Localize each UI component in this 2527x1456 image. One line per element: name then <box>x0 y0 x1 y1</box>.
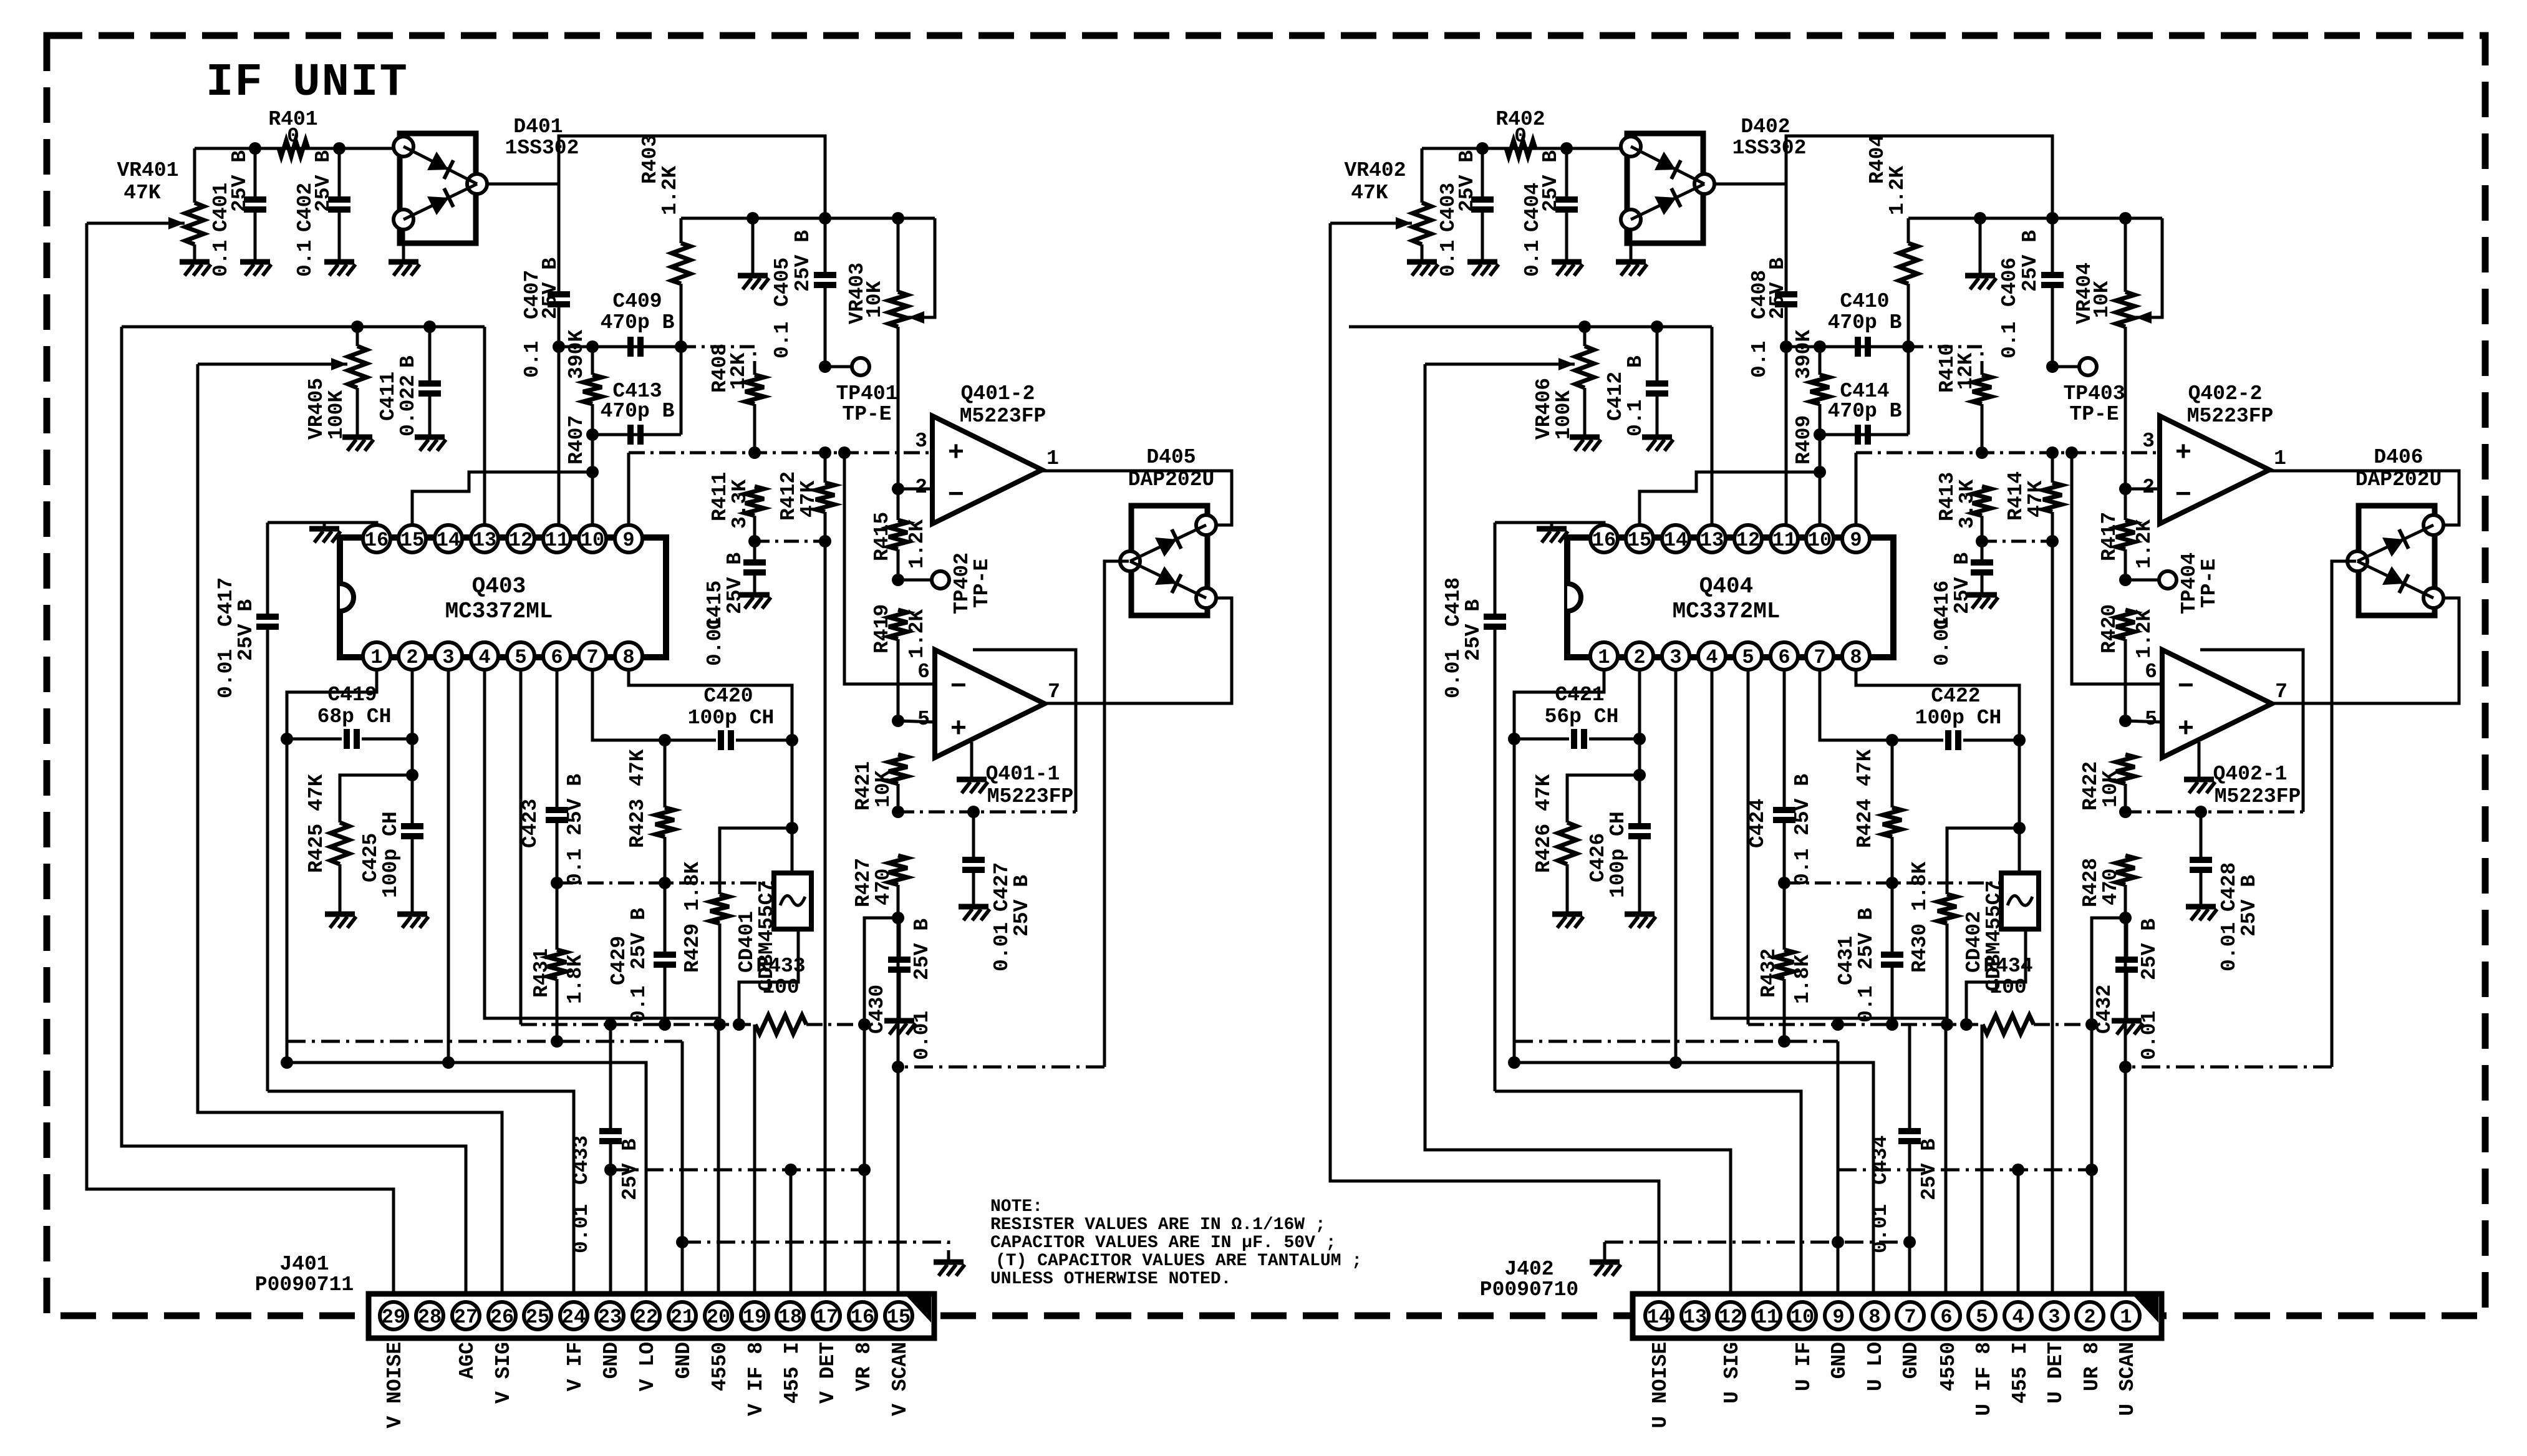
svg-text:13: 13 <box>473 529 496 552</box>
svg-text:M5223FP: M5223FP <box>987 785 1074 808</box>
ground <box>2112 1018 2142 1024</box>
svg-text:C420: C420 <box>703 685 753 708</box>
svg-text:D406: D406 <box>2374 446 2423 469</box>
svg-text:25V B: 25V B <box>1010 875 1033 937</box>
svg-text:3: 3 <box>1669 646 1681 669</box>
resistor R433 100 <box>755 1015 806 1034</box>
ground <box>1550 523 1553 528</box>
svg-text:4: 4 <box>478 646 490 669</box>
svg-text:16: 16 <box>365 529 389 552</box>
wire GND drop <box>1837 1041 1840 1296</box>
wire 455 I row <box>611 1169 864 1172</box>
wire pin 2 column <box>411 669 414 826</box>
wire 455 rail <box>521 1023 755 1026</box>
pin 17 of J401 <box>813 1302 840 1329</box>
ground <box>1570 435 1600 440</box>
junction node <box>1780 340 1792 353</box>
capacitor C413 470p B <box>627 425 634 445</box>
svg-text:8: 8 <box>622 646 634 669</box>
svg-text:47K: 47K <box>2024 480 2047 518</box>
junction node <box>586 428 599 441</box>
svg-text:11: 11 <box>1755 1306 1779 1329</box>
junction node <box>604 1164 617 1176</box>
junction node <box>713 1018 726 1031</box>
svg-text:4550: 4550 <box>708 1342 732 1391</box>
pin 4 of Q404 <box>1698 642 1726 670</box>
ground <box>1967 592 1997 598</box>
svg-text:25V B: 25V B <box>1855 908 1878 970</box>
IC Q403 MC3372ML <box>340 538 666 657</box>
junction node <box>553 340 565 353</box>
svg-text:Q401-2: Q401-2 <box>961 382 1035 405</box>
pin 1 of J402 <box>2112 1302 2140 1329</box>
resistor R404 1.2K <box>1907 218 1910 243</box>
svg-text:11: 11 <box>1772 529 1796 552</box>
resistor R423 47K <box>664 740 667 808</box>
ground <box>1603 1242 1607 1261</box>
svg-text:25V B: 25V B <box>791 230 814 292</box>
svg-text:100K: 100K <box>325 390 348 440</box>
junction node <box>892 574 904 586</box>
junction node <box>1886 877 1898 889</box>
capacitor C408 0.1 25V B <box>1785 184 1788 294</box>
wire pin 11 drop <box>558 347 561 526</box>
svg-text:M5223FP: M5223FP <box>2215 785 2301 808</box>
resistor R422 10K <box>2116 755 2135 784</box>
wire 470p rail lower <box>592 433 681 436</box>
capacitor C415 0.01 25V B <box>753 541 756 562</box>
wire 455 I drop <box>1981 1025 1984 1296</box>
svg-text:5: 5 <box>1742 646 1754 669</box>
svg-text:10K: 10K <box>2090 281 2114 318</box>
svg-text:U SIG: U SIG <box>1721 1342 1744 1404</box>
svg-text:68p CH: 68p CH <box>317 705 392 728</box>
wire pin 7 drop <box>1820 669 1892 740</box>
svg-text:470p B: 470p B <box>601 400 675 423</box>
resistor R419 1.2K <box>889 610 907 639</box>
wire V LO row <box>1514 1063 1873 1296</box>
wire pin4 to 4550 row <box>1712 669 1946 1296</box>
capacitor C434 0.01 25V B <box>1908 1025 1911 1131</box>
junction node <box>551 1035 563 1048</box>
junction node <box>2085 1164 2098 1176</box>
junction node <box>1886 1018 1898 1031</box>
capacitor C407 0.1 25V B <box>558 184 561 294</box>
svg-text:TP-E: TP-E <box>842 403 891 426</box>
junction node <box>819 446 831 459</box>
pin 9 of Q404 <box>1842 525 1870 552</box>
junction node <box>1778 877 1790 889</box>
svg-text:R424 47K: R424 47K <box>1853 749 1877 848</box>
svg-text:VR402: VR402 <box>1344 159 1406 182</box>
junction node <box>281 733 293 745</box>
svg-text:Q403: Q403 <box>472 574 526 599</box>
wire R427 bottom <box>864 918 898 1025</box>
resistor R409 390K <box>1819 347 1822 375</box>
IC Q404 MC3372ML <box>1567 538 1893 657</box>
svg-text:1.8K: 1.8K <box>564 955 587 1004</box>
junction node <box>1832 1236 1844 1248</box>
ground <box>934 1260 964 1265</box>
ground <box>1616 259 1646 265</box>
resistor R403 1.2K <box>680 218 683 243</box>
junction node <box>2195 806 2207 818</box>
junction node <box>604 1018 617 1031</box>
wire R431 GND row <box>287 1040 682 1043</box>
wire pin 15 staircase <box>412 472 592 526</box>
svg-text:3: 3 <box>2048 1306 2060 1329</box>
junction node <box>892 1061 904 1073</box>
ground drop <box>751 218 755 274</box>
svg-text:8: 8 <box>1868 1306 1880 1329</box>
pin 16 of J401 <box>849 1302 876 1329</box>
wire D401 output <box>488 136 825 218</box>
svg-text:UNLESS OTHERWISE NOTED.: UNLESS OTHERWISE NOTED. <box>990 1270 1231 1289</box>
svg-text:25V B: 25V B <box>1456 150 1479 212</box>
junction node <box>2119 806 2132 818</box>
wire op-amp input 2 <box>898 488 932 491</box>
pin 4 of J402 <box>2004 1302 2032 1329</box>
resistor R429 1.8K <box>710 894 729 923</box>
junction node <box>892 806 904 818</box>
pin 6 of J402 <box>1933 1302 1960 1329</box>
svg-text:+: + <box>2178 714 2194 745</box>
svg-text:28: 28 <box>418 1306 442 1329</box>
wire top rail <box>681 217 935 220</box>
ground <box>323 523 326 528</box>
junction node <box>659 877 671 889</box>
svg-text:455 I: 455 I <box>2009 1342 2032 1404</box>
svg-text:0.1: 0.1 <box>521 341 544 378</box>
ground <box>415 435 445 440</box>
svg-text:D402: D402 <box>1741 115 1790 138</box>
wire R434 right <box>2034 1023 2092 1026</box>
svg-text:B: B <box>1624 355 1647 368</box>
pin 8 of Q404 <box>1842 642 1870 670</box>
svg-text:12: 12 <box>1736 529 1760 552</box>
svg-text:VR401: VR401 <box>117 159 178 182</box>
svg-text:25V B: 25V B <box>627 908 650 970</box>
svg-text:+: + <box>950 714 967 745</box>
svg-text:0: 0 <box>287 125 299 148</box>
svg-text:10: 10 <box>1808 529 1832 552</box>
wire pin 13 drop <box>1711 327 1714 526</box>
junction node <box>819 535 831 547</box>
svg-text:15: 15 <box>1628 529 1651 552</box>
pin 14 of J402 <box>1645 1302 1673 1329</box>
svg-text:2: 2 <box>406 646 418 669</box>
svg-text:V LO: V LO <box>636 1342 659 1391</box>
svg-text:8: 8 <box>1850 646 1862 669</box>
capacitor C403 0.1 25V B <box>1481 148 1484 200</box>
svg-text:25V B: 25V B <box>1791 774 1814 836</box>
svg-text:7: 7 <box>2275 680 2288 703</box>
pin 10 of Q403 <box>579 525 606 552</box>
svg-text:5: 5 <box>2145 708 2157 731</box>
svg-text:DAP202U: DAP202U <box>1128 468 1215 491</box>
wire VR405 wiper <box>198 363 331 366</box>
capacitor C430 0.01 25V B <box>864 917 899 920</box>
wire op-amp output 7 <box>2272 598 2459 703</box>
wire C420 to CD401 <box>791 740 794 873</box>
pin 9 of J402 <box>1825 1302 1852 1329</box>
pin 2 of J402 <box>2076 1302 2104 1329</box>
svg-text:4550: 4550 <box>1937 1342 1960 1391</box>
junction node <box>2012 1164 2024 1176</box>
wire D405 mid terminal <box>1104 561 1129 1067</box>
resistor R420 1.2K <box>2116 610 2135 639</box>
svg-text:25V B: 25V B <box>2019 230 2042 292</box>
svg-text:C432: C432 <box>2093 985 2116 1034</box>
pin 15 of Q403 <box>399 525 426 552</box>
svg-text:7: 7 <box>1814 646 1825 669</box>
svg-text:GND: GND <box>672 1342 695 1379</box>
svg-text:U IF: U IF <box>1792 1342 1815 1391</box>
wire D402 lower pin to ground <box>1630 229 1633 261</box>
wire op-amp output 7 <box>1045 598 1232 703</box>
resistor R414 47K <box>2043 483 2062 512</box>
svg-text:D405: D405 <box>1146 446 1196 469</box>
pin 3 of Q404 <box>1662 642 1689 670</box>
junction node <box>351 321 364 333</box>
wire 470p rail upper <box>559 345 681 349</box>
wire op-amp output 1 <box>2269 471 2459 525</box>
ground <box>1625 912 1655 917</box>
svg-text:25V B: 25V B <box>234 599 258 661</box>
junction node <box>748 535 761 547</box>
svg-text:470p B: 470p B <box>1828 311 1902 334</box>
pin 5 of J402 <box>1968 1302 1996 1329</box>
feedback wire <box>2200 650 2303 812</box>
junction node <box>1508 1056 1520 1069</box>
wire pin 16 to ground <box>268 523 377 526</box>
svg-text:TP-E: TP-E <box>2198 559 2221 608</box>
pin 2 of Q403 <box>399 642 426 670</box>
junction node <box>892 715 904 727</box>
svg-text:R425 47K: R425 47K <box>305 774 328 873</box>
ground <box>342 435 372 440</box>
pin 6 of Q404 <box>1771 642 1798 670</box>
potentiometer VR402 47K <box>1421 148 1424 203</box>
svg-text:−: − <box>2178 672 2194 703</box>
svg-text:0.1: 0.1 <box>1624 400 1647 436</box>
wire SCAN row <box>898 1066 1104 1069</box>
wire op-amp input 3 row <box>1856 451 2160 455</box>
wire op-amp output 1 <box>1042 471 1232 525</box>
svg-text:24: 24 <box>562 1306 586 1329</box>
junction node <box>858 1164 871 1176</box>
junction node <box>1560 142 1573 155</box>
svg-text:V SIG: V SIG <box>492 1342 515 1404</box>
junction node <box>406 733 418 745</box>
svg-text:1: 1 <box>2120 1306 2132 1329</box>
junction node <box>1633 733 1646 745</box>
junction node <box>1886 734 1898 746</box>
svg-text:12: 12 <box>1719 1306 1742 1329</box>
pin 7 of Q404 <box>1806 642 1834 670</box>
pin 13 of Q404 <box>1698 525 1726 552</box>
svg-text:11: 11 <box>545 529 569 552</box>
ceramic filter CD401 CDBM455C7 <box>774 873 811 929</box>
svg-text:1: 1 <box>370 646 382 669</box>
wire pin 1 jog <box>1514 669 1604 739</box>
pin 19 of J401 <box>741 1302 768 1329</box>
junction node <box>2119 574 2132 586</box>
ground <box>1642 435 1672 440</box>
pin 1 of Q404 <box>1590 642 1618 670</box>
svg-text:100p CH: 100p CH <box>688 706 775 730</box>
capacitor C418 0.01 25V B <box>1494 523 1497 617</box>
svg-text:19: 19 <box>743 1306 766 1329</box>
svg-text:0: 0 <box>1514 125 1527 148</box>
capacitor C433 0.01 25V B <box>609 1025 612 1131</box>
svg-text:22: 22 <box>634 1306 658 1329</box>
wire 455 I row <box>1838 1169 2092 1172</box>
test point TP402 TP-E <box>898 579 932 582</box>
svg-text:14: 14 <box>1664 529 1688 552</box>
wire V LO row <box>287 1063 646 1296</box>
svg-text:C430: C430 <box>866 985 889 1034</box>
svg-text:0.1: 0.1 <box>1998 322 2021 359</box>
junction node <box>748 446 761 459</box>
wire VR 8 drop <box>2090 1025 2094 1296</box>
resistor R431 1.8K <box>556 883 559 950</box>
resistor R417 1.2K <box>2124 349 2127 520</box>
junction node <box>2046 446 2059 459</box>
svg-text:V IF 8: V IF 8 <box>745 1342 768 1416</box>
svg-text:16: 16 <box>851 1306 874 1329</box>
pin 3 of J402 <box>2041 1302 2068 1329</box>
resistor R427 470 <box>889 856 907 885</box>
junction node <box>659 1018 671 1031</box>
capacitor C426 100p CH <box>1628 823 1651 829</box>
potentiometer VR405 100K <box>356 327 359 346</box>
wire pin 9 drop <box>627 453 631 526</box>
ground <box>1552 259 1582 265</box>
wire V LO column <box>1513 739 1516 1063</box>
pin 26 of J401 <box>488 1302 516 1329</box>
wire op-amp input 5 <box>2125 721 2162 722</box>
junction node <box>1941 1018 1953 1031</box>
svg-text:Q402-2: Q402-2 <box>2188 382 2263 405</box>
capacitor C406 0.1 25V B <box>2051 218 2054 275</box>
wire pin 7 drop <box>592 669 665 740</box>
resistor R411 3.3K <box>745 486 764 516</box>
pin 2 of Q404 <box>1626 642 1653 670</box>
svg-text:P0090711: P0090711 <box>255 1273 354 1296</box>
svg-text:(T) CAPACITOR VALUES ARE TANTA: (T) CAPACITOR VALUES ARE TANTALUM ; <box>995 1251 1362 1271</box>
wire op-amp input 2 <box>2125 488 2160 491</box>
svg-text:25V B: 25V B <box>228 150 251 212</box>
pin 15 of J401 <box>885 1302 912 1329</box>
capacitor C402 0.1 25V B <box>338 148 341 200</box>
wire pin 8 jog <box>1856 669 2019 740</box>
svg-text:1: 1 <box>1598 646 1610 669</box>
junction node <box>786 734 798 746</box>
svg-text:10K: 10K <box>2099 770 2122 808</box>
svg-text:U SCAN: U SCAN <box>2116 1342 2139 1416</box>
resistor R428 470 <box>2116 856 2135 885</box>
wire pin3 GND row <box>1674 669 1678 1063</box>
svg-text:0.01: 0.01 <box>1931 617 1954 666</box>
pin 1 of Q403 <box>363 642 390 670</box>
wire 470p rail upper <box>1786 345 1908 349</box>
op-amp ground <box>970 742 974 778</box>
capacitor C410 470p B <box>1855 337 1861 357</box>
svg-text:R409: R409 <box>1792 415 1815 465</box>
ground drop <box>1979 218 1982 274</box>
pin 10 of Q404 <box>1806 525 1834 552</box>
capacitor C428 0.01 25V B <box>2200 812 2203 860</box>
svg-text:R423 47K: R423 47K <box>626 749 649 848</box>
resistor R415 1.2K <box>897 349 900 520</box>
resistor R408 12K <box>681 347 755 375</box>
svg-text:25V B: 25V B <box>312 150 335 212</box>
wire SCAN column to pin 15 <box>2124 918 2127 1296</box>
svg-text:17: 17 <box>814 1306 838 1329</box>
svg-text:J402: J402 <box>1504 1258 1553 1281</box>
svg-text:20: 20 <box>707 1306 730 1329</box>
junction node <box>1669 1056 1682 1069</box>
svg-text:25V B: 25V B <box>2138 918 2161 980</box>
svg-text:RESISTER VALUES ARE IN Ω.1/16: RESISTER VALUES ARE IN Ω.1/16W ; <box>990 1215 1326 1235</box>
svg-text:TP401: TP401 <box>836 382 897 405</box>
resistor R430 1.8K <box>1938 894 1956 923</box>
wire U NOISE row <box>1330 223 1659 1296</box>
svg-text:6: 6 <box>2145 660 2157 683</box>
wire pin4 to 4550 row <box>485 669 718 1296</box>
svg-text:Q402-1: Q402-1 <box>2213 763 2288 786</box>
svg-text:25V B: 25V B <box>1539 150 1562 212</box>
junction node <box>1903 1236 1916 1248</box>
svg-text:25V B: 25V B <box>539 258 562 319</box>
wire 455 I pin drop <box>790 1170 793 1296</box>
test point TP404 TP-E <box>2125 579 2159 582</box>
wire op-amp input 6 <box>844 453 935 684</box>
wire D401 lower pin to ground <box>402 229 405 261</box>
potentiometer VR404 10K <box>2124 218 2127 292</box>
wire D402 output <box>1716 136 2052 218</box>
resistor R412 47K <box>816 483 834 512</box>
wire top rail VR401 to D401 <box>195 147 405 150</box>
wire V NOISE row <box>87 223 394 1296</box>
svg-text:0.1: 0.1 <box>1437 240 1460 277</box>
pin 25 of J401 <box>524 1302 551 1329</box>
wire V DET column <box>2051 541 2054 1296</box>
svg-text:26: 26 <box>490 1306 514 1329</box>
pin 22 of J401 <box>632 1302 660 1329</box>
pin 13 of J402 <box>1681 1302 1709 1329</box>
svg-text:12K: 12K <box>1954 352 1978 390</box>
junction node <box>1832 1018 1844 1031</box>
svg-text:C406: C406 <box>1998 258 2021 307</box>
junction node <box>249 142 261 155</box>
wire pin 8 jog <box>629 669 792 740</box>
pin 29 of J401 <box>380 1302 407 1329</box>
svg-text:1: 1 <box>2274 447 2286 470</box>
svg-text:C419: C419 <box>327 683 377 706</box>
svg-text:3: 3 <box>442 646 454 669</box>
junction node <box>281 1056 293 1069</box>
resistor R401 0 <box>279 140 308 157</box>
wire VR402 wiper <box>1330 222 1396 225</box>
wire top rail VR402 to D402 <box>1422 147 1632 150</box>
junction node <box>892 212 904 224</box>
ground <box>1965 273 1995 279</box>
svg-text:TP-E: TP-E <box>970 559 993 608</box>
svg-text:16: 16 <box>1592 529 1616 552</box>
junction node <box>2046 212 2059 224</box>
